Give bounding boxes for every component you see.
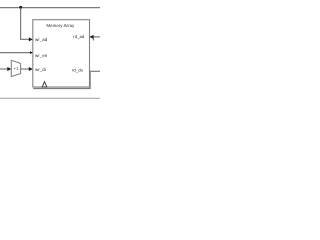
svg-text:+1: +1 (14, 66, 19, 71)
svg-text:rd_do: rd_do (72, 67, 84, 72)
svg-text:wr_ad: wr_ad (35, 37, 48, 42)
svg-text:rd_ad: rd_ad (73, 34, 85, 39)
svg-text:wr_en: wr_en (35, 53, 48, 58)
svg-text:Memory Array: Memory Array (46, 23, 75, 28)
svg-text:wr_di: wr_di (35, 67, 46, 72)
